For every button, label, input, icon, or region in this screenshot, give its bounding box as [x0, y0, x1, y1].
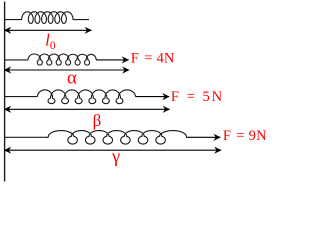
svg-text:F=4N: F=4N — [131, 50, 175, 66]
svg-text:F=5N: F=5N — [171, 89, 223, 105]
measure arrow beta — [4, 106, 170, 113]
wall (fixed support) — [4, 2, 6, 182]
measure arrow gamma — [4, 147, 222, 154]
svg-text:β: β — [93, 111, 102, 130]
svg-text:α: α — [67, 68, 77, 89]
spring S1 (unstretched, natural length) — [5, 12, 89, 24]
measure arrow l0 — [4, 27, 92, 34]
force arrow 9N — [186, 134, 221, 141]
force arrow 4N — [96, 56, 129, 63]
svg-text:l0: l0 — [45, 30, 56, 51]
spring S4 (pulled by 9N) — [5, 131, 186, 144]
svg-text:F=9N: F=9N — [223, 128, 267, 144]
svg-text:γ: γ — [111, 146, 120, 166]
spring S3 (pulled by 5N) — [5, 90, 136, 104]
measure arrow alpha — [4, 66, 130, 73]
force arrow 5N — [135, 93, 169, 100]
spring S2 (pulled by 4N) — [5, 54, 96, 65]
